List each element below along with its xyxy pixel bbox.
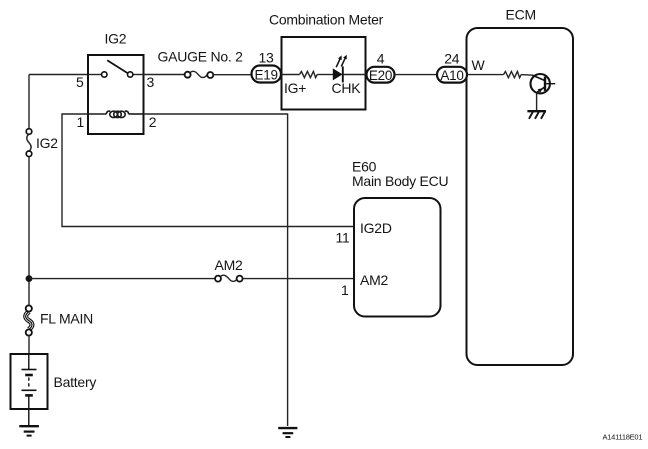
svg-text:Main Body ECU: Main Body ECU	[352, 173, 448, 189]
svg-text:1: 1	[341, 282, 349, 298]
wire coil right branch to ground	[144, 114, 288, 426]
ground ECM chassis	[527, 111, 546, 119]
svg-text:IG2: IG2	[105, 31, 127, 47]
svg-text:ECM: ECM	[506, 7, 536, 23]
connector E20	[367, 67, 395, 83]
svg-text:E20: E20	[369, 68, 392, 83]
wire transistor emitter to ground	[536, 93, 538, 111]
wire resistor to LED	[317, 74, 333, 76]
wire AM2 fuse to E60	[243, 278, 354, 280]
relay coil	[88, 111, 144, 118]
svg-text:IG2: IG2	[36, 135, 58, 151]
connector E19	[252, 66, 282, 83]
svg-text:A10: A10	[440, 68, 463, 83]
svg-text:IG2D: IG2D	[360, 220, 392, 236]
ECM box	[467, 28, 574, 365]
svg-text:4: 4	[377, 51, 385, 67]
connector A10	[437, 67, 467, 83]
wire meter internal left	[282, 74, 300, 76]
svg-text:AM2: AM2	[360, 272, 389, 288]
svg-text:FL MAIN: FL MAIN	[40, 311, 93, 327]
svg-text:Combination Meter: Combination Meter	[269, 12, 384, 28]
svg-text:Battery: Battery	[54, 374, 97, 390]
resistor meter	[300, 71, 318, 77]
relay IG2 box	[88, 55, 144, 134]
wire coil left branch to IG2D	[62, 114, 354, 227]
svg-text:3: 3	[147, 74, 155, 90]
svg-text:GAUGE No. 2: GAUGE No. 2	[158, 49, 244, 65]
svg-text:AM2: AM2	[215, 257, 244, 273]
battery cells	[22, 354, 37, 426]
svg-text:1: 1	[76, 114, 84, 130]
LED CHK	[333, 55, 366, 83]
battery box	[11, 354, 48, 409]
wire E20 to A10	[395, 74, 438, 76]
ground earth bottom center	[278, 428, 297, 437]
svg-text:CHK: CHK	[332, 80, 362, 96]
svg-text:IG+: IG+	[284, 80, 306, 96]
combination meter box	[282, 37, 366, 110]
wire left riser upper	[28, 75, 30, 130]
node junction AM2 branch	[26, 275, 33, 282]
svg-text:13: 13	[258, 50, 274, 66]
E60 box	[354, 198, 441, 317]
svg-text:24: 24	[444, 51, 460, 67]
wire fuse to E19	[213, 74, 252, 76]
label E60 Main Body ECU	[352, 159, 448, 190]
wire AM2 branch	[29, 278, 215, 280]
wire resistor to transistor	[521, 74, 532, 77]
fuse IG2	[26, 129, 32, 157]
wire left riser middle	[28, 157, 30, 306]
resistor ECM	[504, 72, 522, 78]
relay switch contacts and blade	[88, 60, 144, 77]
fusible link FL MAIN	[26, 305, 32, 335]
svg-text:W: W	[472, 57, 486, 73]
svg-text:11: 11	[335, 230, 349, 246]
svg-text:2: 2	[149, 114, 157, 130]
wire ECM internal	[467, 74, 504, 76]
fuse AM2	[215, 275, 243, 281]
transistor Q	[531, 74, 556, 93]
svg-text:A141118E01: A141118E01	[603, 432, 643, 441]
wire left riser lower	[28, 335, 30, 354]
fuse GAUGE No. 2	[185, 71, 214, 78]
ground battery earth	[19, 426, 39, 435]
svg-text:E19: E19	[255, 68, 278, 83]
svg-text:5: 5	[76, 74, 84, 90]
wire relay to GAUGE fuse	[144, 74, 185, 76]
wire relay pin5 feed horizontal	[29, 74, 88, 76]
